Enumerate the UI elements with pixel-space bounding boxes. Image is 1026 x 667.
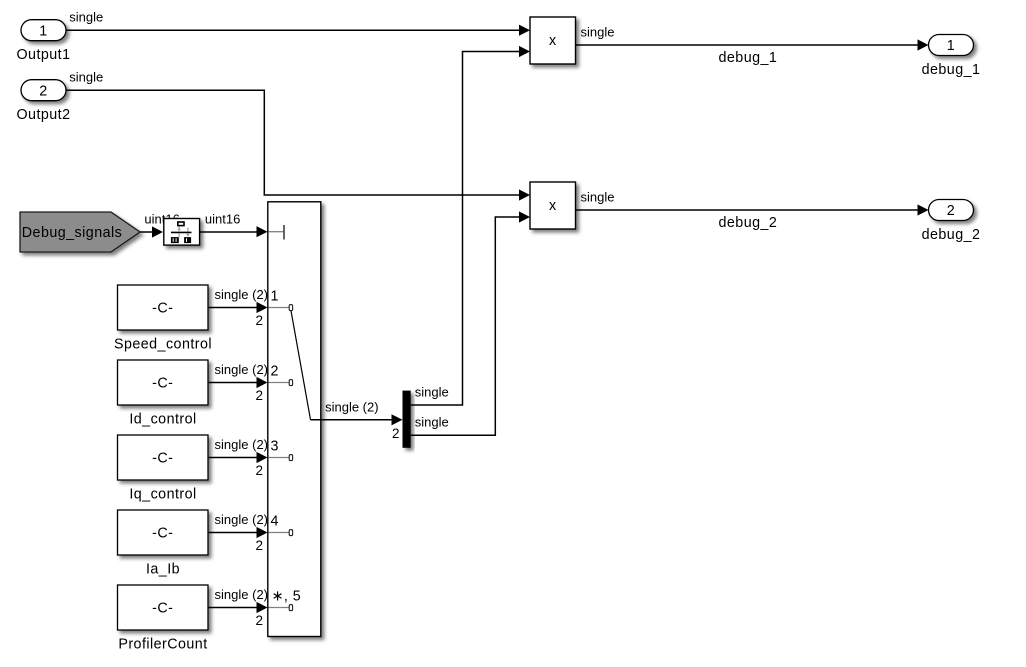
selector diagonal	[291, 311, 311, 420]
svg-text:2: 2	[255, 613, 263, 628]
svg-text:4: 4	[271, 514, 279, 530]
wire Product1 to debug_1 outport	[576, 39, 929, 50]
constant Iq_control	[118, 435, 209, 480]
svg-text:Output2: Output2	[16, 107, 70, 123]
svg-text:single (2): single (2)	[215, 287, 268, 302]
wire Product2 to debug_2 outport	[576, 204, 929, 215]
svg-text:2: 2	[255, 313, 263, 328]
svg-text:single (2): single (2)	[215, 362, 268, 377]
svg-text:single: single	[415, 384, 449, 399]
port 1 marker	[269, 307, 290, 309]
wire Demux out1 to Product1 in2	[411, 46, 530, 405]
svg-text:Output1: Output1	[16, 47, 70, 63]
constant ProfilerCount	[118, 585, 209, 630]
svg-text:single: single	[415, 415, 449, 430]
port 4 marker	[269, 532, 290, 534]
svg-text:Speed_control: Speed_control	[114, 336, 212, 352]
svg-text:debug_2: debug_2	[719, 215, 778, 231]
svg-text:Iq_control: Iq_control	[129, 486, 196, 502]
wire Demux out2 to Product2 in2	[411, 211, 530, 435]
svg-text:2: 2	[255, 538, 263, 553]
svg-text:-C-: -C-	[152, 301, 173, 317]
svg-text:Ia_Ib: Ia_Ib	[146, 561, 180, 577]
inport Output1	[21, 20, 66, 41]
svg-text:debug_1: debug_1	[922, 62, 981, 78]
svg-text:ProfilerCount: ProfilerCount	[118, 636, 207, 652]
svg-text:single: single	[581, 24, 615, 39]
port 5 marker	[269, 607, 290, 609]
svg-text:-C-: -C-	[152, 376, 173, 392]
wire Ia_Ib to Switch in4	[208, 527, 268, 538]
multiport switch block	[268, 202, 321, 637]
svg-text:-C-: -C-	[152, 451, 173, 467]
svg-text:2: 2	[392, 426, 400, 441]
product U1 (x)	[530, 17, 576, 64]
From tag Debug_signals	[20, 212, 140, 252]
svg-text:1: 1	[39, 23, 47, 39]
svg-text:single (2): single (2)	[215, 512, 268, 527]
wire Switch out to Demux	[311, 414, 403, 425]
svg-text:2: 2	[271, 364, 279, 380]
svg-text:2: 2	[255, 463, 263, 478]
svg-text:single: single	[69, 10, 103, 25]
svg-text:single: single	[69, 69, 103, 84]
wire Iq_control to Switch in3	[208, 452, 268, 463]
inport Output2	[21, 80, 66, 101]
block Unpack (byte unpack icon)	[164, 219, 200, 246]
wire Output2 to Product2 in1	[66, 90, 530, 200]
wire Output1 to Product1 in1	[66, 25, 530, 36]
control port marker	[269, 231, 284, 233]
wire ProfilerCount to Switch in5	[208, 602, 268, 613]
svg-text:uint16: uint16	[205, 211, 240, 226]
svg-text:2: 2	[39, 83, 47, 99]
svg-text:debug_2: debug_2	[922, 227, 981, 243]
product U2 (x)	[530, 182, 576, 229]
svg-text:-C-: -C-	[152, 526, 173, 542]
svg-text:single (2): single (2)	[215, 587, 268, 602]
svg-text:Id_control: Id_control	[129, 411, 196, 427]
svg-text:single (2): single (2)	[325, 399, 378, 414]
svg-text:2: 2	[947, 203, 955, 219]
port 2 marker	[269, 382, 290, 384]
wire Id_control to Switch in2	[208, 377, 268, 388]
constant Ia_Ib	[118, 510, 209, 555]
svg-text:x: x	[549, 198, 557, 214]
outport debug_1	[929, 35, 974, 56]
demux bar	[403, 391, 411, 448]
svg-text:1: 1	[947, 38, 955, 54]
svg-text:single: single	[581, 189, 615, 204]
constant Speed_control	[118, 285, 209, 330]
svg-text:Debug_signals: Debug_signals	[22, 225, 122, 241]
svg-text:1: 1	[271, 289, 279, 305]
svg-text:x: x	[549, 33, 557, 49]
constant Id_control	[118, 360, 209, 405]
port 3 marker	[269, 457, 290, 459]
svg-text:-C-: -C-	[152, 601, 173, 617]
wire Unpack to Switch control	[200, 226, 268, 237]
svg-text:single (2): single (2)	[215, 437, 268, 452]
outport debug_2	[929, 200, 974, 221]
wire From tag to Unpack	[140, 226, 163, 237]
svg-text:2: 2	[255, 388, 263, 403]
svg-text:∗, 5: ∗, 5	[272, 589, 302, 605]
wire Speed_control to Switch in1	[208, 302, 268, 313]
svg-text:3: 3	[271, 439, 279, 455]
svg-text:debug_1: debug_1	[719, 50, 778, 66]
